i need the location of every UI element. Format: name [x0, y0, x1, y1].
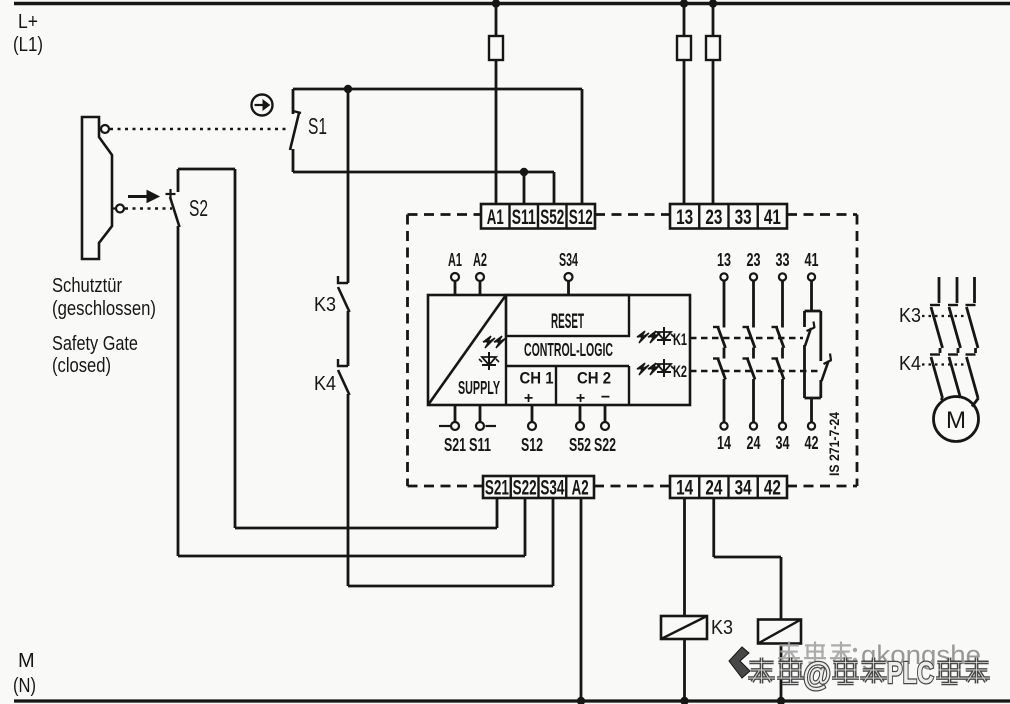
- svg-text:33: 33: [735, 206, 752, 229]
- svg-text:K2: K2: [673, 362, 687, 381]
- svg-text:K3: K3: [314, 294, 336, 316]
- svg-text:S11: S11: [469, 435, 491, 455]
- svg-text:S11: S11: [512, 206, 536, 229]
- svg-text:A2: A2: [473, 250, 487, 270]
- svg-text:+: +: [524, 390, 533, 407]
- svg-text:IS 271-7-24: IS 271-7-24: [826, 412, 842, 476]
- svg-text:23: 23: [705, 206, 722, 229]
- svg-text:23: 23: [747, 250, 761, 270]
- svg-text:S12: S12: [521, 435, 543, 455]
- svg-text:S2: S2: [189, 195, 208, 221]
- svg-text:S22: S22: [513, 477, 537, 500]
- svg-text:L+: L+: [18, 11, 38, 33]
- svg-text:34: 34: [776, 433, 790, 453]
- svg-text:A2: A2: [572, 477, 589, 500]
- svg-text:(closed): (closed): [52, 355, 111, 377]
- svg-text:M: M: [18, 650, 35, 672]
- svg-text:24: 24: [705, 477, 722, 500]
- svg-text:42: 42: [805, 433, 819, 453]
- svg-text:34: 34: [735, 477, 752, 500]
- svg-text:PLC: PLC: [887, 655, 934, 690]
- svg-text:(geschlossen): (geschlossen): [52, 298, 156, 320]
- svg-text:S1: S1: [308, 113, 327, 139]
- svg-text:M: M: [946, 407, 966, 434]
- svg-text:13: 13: [717, 250, 731, 270]
- svg-text:S12: S12: [569, 206, 593, 229]
- svg-text:S34: S34: [540, 477, 564, 500]
- svg-text:K4: K4: [314, 373, 336, 395]
- svg-text:−: −: [601, 389, 610, 406]
- svg-text:S21: S21: [444, 435, 466, 455]
- svg-text:K3: K3: [711, 617, 733, 639]
- svg-text:S22: S22: [594, 435, 616, 455]
- svg-text:S52: S52: [540, 206, 564, 229]
- svg-text:+: +: [576, 390, 585, 407]
- svg-text:CH 2: CH 2: [577, 369, 611, 388]
- svg-text:A1: A1: [448, 250, 462, 270]
- svg-text:K3: K3: [899, 305, 921, 327]
- svg-text:41: 41: [805, 250, 819, 270]
- svg-text:24: 24: [747, 433, 761, 453]
- svg-text:S52: S52: [569, 435, 591, 455]
- svg-text:CONTROL-LOGIC: CONTROL-LOGIC: [524, 340, 613, 360]
- svg-text:RESET: RESET: [551, 310, 584, 333]
- svg-text:@: @: [803, 656, 831, 692]
- svg-text:41: 41: [764, 206, 781, 229]
- svg-text:14: 14: [676, 477, 693, 500]
- svg-text:SUPPLY: SUPPLY: [458, 378, 500, 398]
- svg-text:42: 42: [764, 477, 781, 500]
- svg-text:S34: S34: [559, 250, 578, 270]
- svg-text:K4: K4: [899, 353, 921, 375]
- svg-text:K1: K1: [673, 330, 687, 349]
- svg-text:(L1): (L1): [13, 34, 43, 56]
- svg-text:(N): (N): [13, 675, 36, 697]
- svg-text:33: 33: [776, 250, 790, 270]
- svg-text:CH 1: CH 1: [520, 369, 554, 388]
- svg-text:14: 14: [717, 433, 731, 453]
- svg-text:S21: S21: [485, 477, 509, 500]
- svg-text:13: 13: [676, 206, 693, 229]
- svg-text:Safety Gate: Safety Gate: [52, 333, 138, 355]
- svg-text:Schutztür: Schutztür: [52, 275, 122, 297]
- svg-text:A1: A1: [487, 206, 504, 229]
